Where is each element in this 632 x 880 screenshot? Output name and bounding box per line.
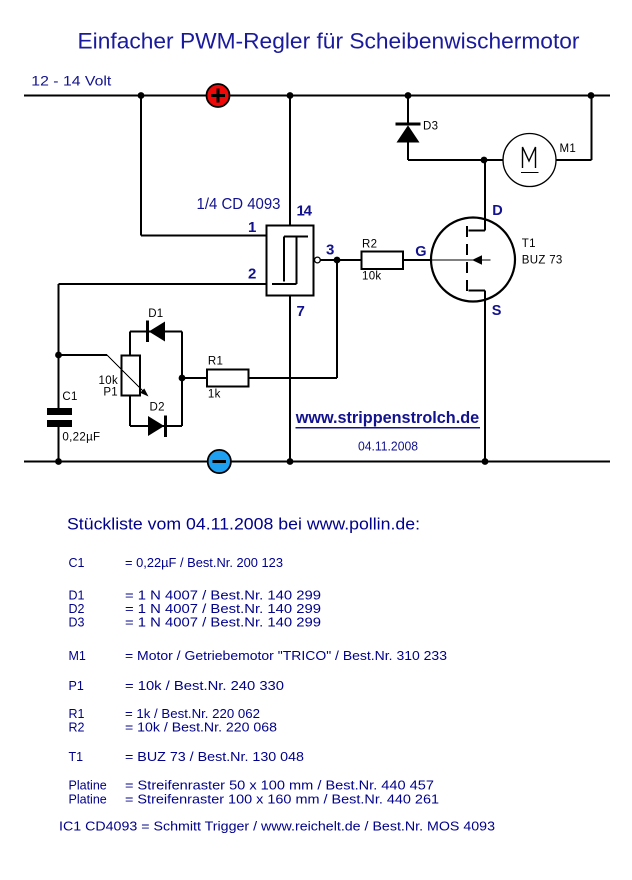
svg-text:P1: P1 [69, 679, 84, 693]
svg-text:D3: D3 [423, 121, 438, 133]
gate inverting output bubble [315, 257, 321, 263]
svg-text:Stückliste vom 04.11.2008 bei: Stückliste vom 04.11.2008 bei www.pollin… [67, 516, 420, 534]
svg-text:= 0,22µF / Best.Nr. 200 123: = 0,22µF / Best.Nr. 200 123 [125, 556, 283, 570]
wire: gate pin 2 horizontal [59, 283, 267, 285]
junction on rail at x408 [405, 92, 412, 99]
wire: source to ground rail [484, 291, 486, 462]
parts list row T1 [69, 750, 305, 764]
wire: node 3 feedback vertical [336, 260, 338, 378]
svg-text:14: 14 [297, 203, 313, 220]
wire: wiper horizontal from left branch [59, 354, 108, 356]
node: plus supply terminal [207, 84, 230, 107]
junction pin7 on ground rail [287, 458, 294, 465]
svg-text:D3: D3 [69, 616, 85, 630]
junction wiper on left branch [55, 352, 62, 359]
svg-text:T1: T1 [522, 238, 536, 250]
parts list row M1 [69, 649, 448, 663]
svg-text:R1: R1 [208, 356, 223, 368]
svg-text:R2: R2 [362, 239, 377, 251]
svg-text:R2: R2 [69, 721, 85, 735]
node 3 junction [334, 257, 341, 264]
svg-text:Einfacher PWM-Regler für Schei: Einfacher PWM-Regler für Scheibenwischer… [78, 29, 581, 54]
wire: R2 to MOSFET gate [403, 259, 432, 261]
wire: D3 bottom connection [407, 143, 409, 161]
svg-text:M1: M1 [560, 143, 577, 155]
parts list row R2 [69, 721, 278, 735]
motor M1 [503, 134, 556, 187]
svg-text:= 1 N 4007 / Best.Nr. 140 299: = 1 N 4007 / Best.Nr. 140 299 [125, 616, 321, 630]
svg-text:S: S [492, 303, 502, 319]
wire: node 3 to R2 [337, 259, 362, 261]
svg-text:= 10k / Best.Nr. 240 330: = 10k / Best.Nr. 240 330 [125, 679, 284, 693]
svg-text:7: 7 [297, 303, 305, 320]
wire: right vertical to top rail [591, 96, 593, 161]
svg-text:D2: D2 [150, 402, 165, 414]
wire: gate pin 7 to ground [289, 296, 291, 462]
website link text [295, 408, 480, 428]
wire: D3 top connection [407, 96, 409, 125]
node: minus ground terminal [208, 450, 231, 473]
diode D1 [148, 321, 166, 343]
junction motor/drain node [481, 157, 488, 164]
parts list row D3 [69, 616, 322, 630]
svg-text:0,22µF: 0,22µF [62, 432, 100, 444]
svg-text:3: 3 [326, 242, 334, 259]
diode D2 [148, 416, 166, 438]
wire: left branch vertical (pin2 to C1) [58, 284, 60, 409]
resistor R2 [362, 252, 404, 270]
svg-text:1k: 1k [208, 389, 221, 401]
op-amp U1 CD4093 gate body [267, 226, 314, 296]
svg-text:12 - 14 Volt: 12 - 14 Volt [31, 73, 111, 89]
svg-text:2: 2 [248, 266, 256, 283]
svg-text:IC1 CD4093 = Schmitt Trigger /: IC1 CD4093 = Schmitt Trigger / www.reich… [59, 820, 495, 834]
svg-text:= Motor / Getriebemotor "TRICO: = Motor / Getriebemotor "TRICO" / Best.N… [125, 649, 447, 663]
parts list row Platine 2 [69, 793, 440, 807]
parts list row P1 [69, 679, 285, 693]
wire: network bottom branch [130, 425, 182, 427]
svg-text:G: G [415, 244, 426, 260]
capacitor C1 [47, 408, 72, 427]
svg-text:1/4 CD 4093: 1/4 CD 4093 [197, 196, 281, 213]
svg-text:M1: M1 [69, 649, 86, 663]
svg-text:= BUZ 73 / Best.Nr. 130 048: = BUZ 73 / Best.Nr. 130 048 [125, 750, 304, 764]
svg-text:www.strippenstrolch.de: www.strippenstrolch.de [295, 408, 479, 427]
svg-text:D1: D1 [148, 308, 163, 320]
svg-text:= 1k / Best.Nr. 220 062: = 1k / Best.Nr. 220 062 [125, 707, 260, 721]
svg-text:04.11.2008: 04.11.2008 [358, 440, 418, 454]
svg-text:C1: C1 [62, 391, 77, 403]
wire: network left top segment [129, 332, 131, 356]
svg-text:R1: R1 [69, 707, 85, 721]
wire: drain vertical [484, 160, 486, 231]
svg-text:D2: D2 [69, 602, 85, 616]
svg-text:= 1 N 4007 / Best.Nr. 140 299: = 1 N 4007 / Best.Nr. 140 299 [125, 602, 321, 616]
junction C1 on ground rail [55, 458, 62, 465]
wire: C1 to ground rail [58, 427, 60, 462]
wire: network top branch [130, 331, 182, 333]
wire: network left bottom segment [129, 396, 131, 427]
svg-text:= Streifenraster 100 x 160 mm: = Streifenraster 100 x 160 mm / Best.Nr.… [125, 793, 439, 807]
parts list row C1 [69, 556, 284, 570]
junction source on ground rail [482, 458, 489, 465]
wire: bottom ground rail [24, 461, 610, 463]
svg-text:10k: 10k [99, 375, 118, 387]
transistor T1 BUZ 73 MOSFET [431, 218, 515, 302]
diode D3 [396, 124, 421, 143]
junction on rail at x290 [287, 92, 294, 99]
parts list row D1 [69, 589, 322, 603]
junction diode network to R1 [179, 375, 186, 382]
svg-text:= Streifenraster 50 x 100 mm /: = Streifenraster 50 x 100 mm / Best.Nr. … [125, 779, 434, 793]
wire: motor to right vertical [556, 159, 592, 161]
svg-text:C1: C1 [69, 556, 85, 570]
svg-text:P1: P1 [103, 387, 118, 399]
parts list row D2 [69, 602, 322, 616]
svg-text:T1: T1 [69, 750, 84, 764]
svg-text:BUZ 73: BUZ 73 [522, 255, 563, 267]
wire: rail drop to pin 1 (vertical) [140, 96, 142, 236]
wire: D3 to motor horizontal [408, 159, 503, 161]
svg-text:10k: 10k [362, 271, 381, 283]
junction on rail at x591 [588, 92, 595, 99]
svg-text:Platine: Platine [69, 779, 107, 793]
wiper arrow of P1 [107, 355, 149, 397]
svg-text:1: 1 [248, 219, 256, 236]
wire: gate output to node 3 [321, 259, 338, 261]
svg-text:D1: D1 [69, 589, 85, 603]
svg-text:Platine: Platine [69, 793, 107, 807]
svg-text:= 10k / Best.Nr. 220 068: = 10k / Best.Nr. 220 068 [125, 721, 277, 735]
junction on rail at x141 [138, 92, 145, 99]
wire: +12V top supply rail [24, 95, 610, 97]
parts list row Platine 1 [69, 779, 435, 793]
wire: pin 14 supply drop [289, 96, 291, 226]
svg-text:D: D [492, 203, 502, 219]
svg-text:= 1 N 4007 / Best.Nr. 140 299: = 1 N 4007 / Best.Nr. 140 299 [125, 589, 321, 603]
parts list row R1 [69, 707, 261, 721]
wire: feedback horizontal to R1 [249, 377, 338, 379]
resistor R1 [207, 370, 249, 387]
wire: R1 to diode network junction [182, 377, 207, 379]
potentiometer P1 body [122, 356, 141, 396]
wire: horizontal to gate pin 1 [141, 235, 267, 237]
wire: network right vertical [181, 332, 183, 427]
